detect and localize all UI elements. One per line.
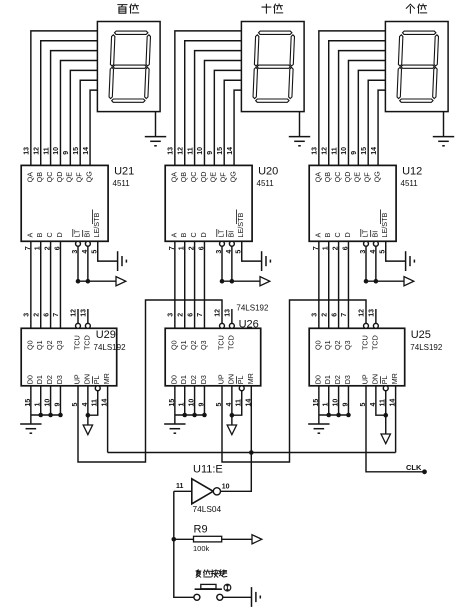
wire U20 QD to DS2 segment d [204,61,241,166]
svg-text:QD: QD [343,172,352,183]
ground below display DS1 [145,112,166,146]
svg-text:Q3: Q3 [55,340,64,350]
wire R9 left lead [174,538,194,540]
7-segment display DS1 (百位) [97,22,160,112]
wire U20 QA to DS2 segment a [175,31,242,166]
resistor R9 body [194,536,222,542]
label 十位 (digit name) [262,4,283,13]
svg-text:QA: QA [169,172,178,183]
wire U20 QC to DS2 segment c [195,51,242,166]
svg-text:TCD: TCD [226,335,235,350]
wire ground rail [175,414,205,416]
wire U12.B to U25.Q1 [328,241,330,328]
svg-text:QD: QD [55,172,64,183]
svg-text:QF: QF [219,172,228,183]
wire U25.MR to master reset line [395,386,397,453]
svg-text:U12: U12 [402,166,422,178]
ground below display DS2 [289,112,310,146]
stub wire U29.TCD (unconnected) [87,309,89,323]
wire U21.B to U29.Q1 [40,241,42,328]
junction ground rail at D3 [202,413,207,418]
wire U12 QG to DS3 segment g [378,90,385,165]
wire U29.DN to VCC [87,386,89,415]
label 百位 (digit name) [118,4,139,13]
ground below U26 data inputs [164,415,185,433]
push button (reset) [194,584,231,600]
svg-text:U11:E: U11:E [193,464,223,476]
wire U21.BI down to power rail [87,246,89,281]
svg-text:MR: MR [390,373,399,384]
svg-text:7: 7 [197,313,204,317]
svg-text:LT: LT [360,229,369,237]
junction at BI wire (231.9,281) [230,279,235,284]
wire U21.A to U29.Q0 [30,241,32,328]
inverted pin bubble U29.PL (11) [95,386,100,391]
counter U25 (74LS192) body [309,328,405,386]
svg-text:6: 6 [187,313,194,317]
svg-text:TCU: TCU [72,335,81,350]
wire U12.D to U25.Q3 [347,241,349,328]
svg-text:D: D [55,232,64,237]
junction MR line / inverter output (251,452) [249,450,254,455]
svg-text:6: 6 [331,313,338,317]
inverter U11:E (74LS04) [192,479,221,504]
svg-text:UP: UP [216,374,225,384]
wire U25.D2 to ground rail [338,386,340,415]
wire U25.D3 to ground rail [347,386,349,415]
svg-text:12: 12 [177,147,184,155]
power terminal VCC (arrow down) [385,415,387,434]
svg-text:Q0: Q0 [25,340,34,350]
wire inverter input (pin 11) [174,490,192,492]
svg-text:QE: QE [353,172,362,183]
svg-text:QB: QB [323,172,332,183]
svg-text:C: C [45,232,54,237]
svg-text:U25: U25 [411,329,431,341]
stub wire U29.TCU (unconnected) [77,309,79,323]
wire power rail horizontal [78,280,116,282]
svg-text:QD: QD [199,172,208,183]
wire U12.BI down to power rail [375,246,377,281]
junction at LT wire (78.0,281) [76,279,81,284]
svg-text:13: 13 [369,309,376,317]
wire U20.LE/STB to ground [242,241,262,261]
power terminal VCC (arrow down) [231,415,233,425]
svg-text:D0: D0 [25,375,34,384]
svg-text:10: 10 [341,147,348,155]
power terminal VCC (arrow right of R9) [252,535,262,544]
wire U20.BI down to power rail [231,246,233,281]
decoder U12 (4511) body [309,165,396,241]
svg-text:QG: QG [84,171,93,183]
svg-text:Q3: Q3 [199,340,208,350]
junction DN/PL (87.9,415) [86,413,91,418]
svg-text:PL: PL [92,376,101,385]
counter U26 (74LS192) body [165,328,261,386]
wire U12 QB to DS3 segment b [329,41,386,166]
svg-text:B: B [323,233,332,238]
svg-text:10: 10 [197,147,204,155]
svg-text:4511: 4511 [401,179,419,188]
wire master reset line (MR bus) [108,452,396,454]
svg-text:D1: D1 [323,375,332,384]
svg-text:Q2: Q2 [333,340,342,350]
svg-text:6: 6 [43,313,50,317]
wire U25.D0 to ground rail [318,386,320,415]
svg-text:3: 3 [24,313,31,317]
svg-text:12: 12 [215,309,222,317]
inverted pin bubble U29.TCD (13) [85,323,90,328]
wire U20.D to U26.Q3 [203,241,205,328]
svg-text:100k: 100k [193,544,210,553]
svg-text:4511: 4511 [113,179,131,188]
svg-text:U21: U21 [114,166,134,178]
svg-text:QA: QA [25,172,34,183]
svg-text:15: 15 [361,147,368,155]
svg-text:12: 12 [321,147,328,155]
7-segment display DS2 (十位) [241,22,304,112]
svg-text:TCD: TCD [370,335,379,350]
wire power rail horizontal [366,280,404,282]
wire U20 QG to DS2 segment g [234,90,241,165]
label 个位 (digit name) [406,4,427,13]
wire U21 QG to DS1 segment g [90,90,97,165]
svg-text:13: 13 [225,309,232,317]
stub wire U25.TCD (unconnected) [375,309,377,323]
wire U25.UP(5) to CLK terminal [366,386,425,472]
svg-text:14: 14 [227,147,234,155]
junction DN/PL (385.7,415) [383,413,388,418]
svg-text:QB: QB [179,172,188,183]
svg-text:QG: QG [228,171,237,183]
svg-text:7: 7 [341,313,348,317]
wire U26.D0 to ground rail [174,386,176,415]
wire U29.D3 to ground rail [59,386,61,415]
junction ground rail at D3 [58,413,63,418]
junction DN/PL (231.9,415) [230,413,235,418]
svg-text:14: 14 [83,147,90,155]
ground (LE/STB) [262,251,271,271]
svg-text:13: 13 [312,147,319,155]
svg-text:QF: QF [75,172,84,183]
svg-text:13: 13 [24,147,31,155]
svg-text:D1: D1 [179,375,188,384]
svg-text:QE: QE [65,172,74,183]
wire U20.C to U26.Q2 [194,241,196,328]
svg-text:D3: D3 [199,375,208,384]
svg-text:QF: QF [363,172,372,183]
svg-text:BI: BI [226,231,235,238]
wire U21 QC to DS1 segment c [51,51,98,166]
inverted pin bubble U26.PL (11) [239,386,244,391]
svg-text:D0: D0 [169,375,178,384]
wire reset net vertical (inverter input to button) [174,491,194,597]
junction ground rail at D1 [326,413,331,418]
inverted pin bubble U26.TCD (13) [229,323,234,328]
svg-text:LT: LT [216,229,225,237]
svg-text:11: 11 [187,147,194,155]
svg-text:15: 15 [217,147,224,155]
svg-text:D0: D0 [313,375,322,384]
svg-text:14: 14 [371,147,378,155]
junction ground rail at D1 [38,413,43,418]
wire U21 QB to DS1 segment b [41,41,98,166]
ground (LE/STB) [406,251,415,271]
svg-text:Q1: Q1 [179,340,188,350]
svg-text:QG: QG [372,171,381,183]
svg-text:LE/STB: LE/STB [236,213,245,238]
svg-text:13: 13 [81,309,88,317]
svg-text:TCU: TCU [216,335,225,350]
wire U26.MR / inverter output to master reset line [220,386,252,492]
inverted pin bubble U12.BI (4) [373,241,378,246]
junction at LT wire (366.0,281) [364,279,369,284]
svg-text:9: 9 [63,151,70,155]
counter U29 (74LS192) body [21,328,117,386]
inverted pin bubble U21.BI (4) [85,241,90,246]
ground (LE/STB) [118,251,127,271]
wire ground rail [319,414,349,416]
svg-text:D: D [199,232,208,237]
wire U12 QC to DS3 segment c [339,51,386,166]
svg-text:DN: DN [82,374,91,384]
svg-text:DN: DN [226,374,235,384]
svg-text:3: 3 [312,313,319,317]
svg-text:D: D [343,232,352,237]
svg-text:10: 10 [53,147,60,155]
power terminal VCC (arrow down) [87,415,89,425]
svg-text:11: 11 [43,147,50,155]
svg-text:QC: QC [45,172,54,183]
inverted pin bubble U25.PL (11) [383,386,388,391]
svg-text:Q0: Q0 [313,340,322,350]
wire U12.LT down to power rail [365,246,367,281]
junction ground rail at D2 [192,413,197,418]
svg-text:A: A [313,233,322,238]
svg-text:QE: QE [209,172,218,183]
svg-text:D3: D3 [55,375,64,384]
power terminal VCC (arrow right) [116,277,126,286]
svg-text:CLK: CLK [406,463,422,472]
wire U21.C to U29.Q2 [50,241,52,328]
wire R9 right lead to VCC [222,538,252,540]
ground below U29 data inputs [20,415,41,433]
wire carry: U25.TCU(12) to U26.UP(5) [222,300,366,462]
wire U21 QA to DS1 segment a [31,31,98,166]
svg-text:BI: BI [82,231,91,238]
svg-text:2: 2 [177,313,184,317]
svg-text:11: 11 [176,483,184,490]
svg-text:A: A [25,233,34,238]
wire U20.A to U26.Q0 [174,241,176,328]
svg-text:D2: D2 [189,375,198,384]
svg-text:4511: 4511 [257,179,275,188]
svg-text:C: C [189,232,198,237]
svg-text:10: 10 [222,483,230,490]
junction reset net at R9 (173.8,539.3) [172,537,177,542]
svg-text:QC: QC [189,172,198,183]
svg-text:12: 12 [71,309,78,317]
svg-text:A: A [169,233,178,238]
wire U20.B to U26.Q1 [184,241,186,328]
svg-text:74LS192: 74LS192 [410,343,443,352]
svg-text:TCU: TCU [360,335,369,350]
junction at BI wire (87.9,281) [86,279,91,284]
svg-text:U26: U26 [239,319,259,331]
svg-text:11: 11 [331,147,338,155]
wire U12 QF to DS3 segment f [368,80,385,165]
ground below U25 data inputs [308,415,329,433]
junction ground rail at D2 [336,413,341,418]
wire U25.PL to VCC [385,391,387,416]
svg-text:12: 12 [33,147,40,155]
svg-text:Q0: Q0 [169,340,178,350]
wire U21 QF to DS1 segment f [80,80,97,165]
svg-text:15: 15 [73,147,80,155]
junction at BI wire (375.9,281) [374,279,379,284]
svg-text:D2: D2 [333,375,342,384]
svg-text:D2: D2 [45,375,54,384]
decoder U20 (4511) body [165,165,252,241]
svg-text:12: 12 [359,309,366,317]
svg-text:U20: U20 [258,166,278,178]
svg-text:B: B [179,233,188,238]
svg-text:BI: BI [370,231,379,238]
wire ground rail [31,414,61,416]
junction ground rail at D1 [182,413,187,418]
svg-text:Q3: Q3 [343,340,352,350]
svg-text:74LS192: 74LS192 [236,304,269,313]
stub wire U26.TCD (unconnected) [231,309,233,323]
wire U29.PL to VCC [88,391,98,416]
power terminal VCC (arrow right) [404,277,414,286]
svg-text:9: 9 [207,151,214,155]
svg-text:MR: MR [102,373,111,384]
inverted pin bubble U20.BI (4) [229,241,234,246]
wire U12 QE to DS3 segment e [358,70,385,165]
svg-text:UP: UP [72,374,81,384]
svg-text:Q1: Q1 [35,340,44,350]
svg-text:QA: QA [313,172,322,183]
svg-text:74LS192: 74LS192 [94,343,127,352]
wire U25.DN to VCC [376,386,386,415]
inverted pin bubble U29.TCU (12) [76,323,81,328]
wire U20 QF to DS2 segment f [224,80,241,165]
svg-text:U29: U29 [96,329,116,341]
svg-text:B: B [35,233,44,238]
7-segment display DS3 (个位) [385,22,448,112]
inverted pin bubble U25.TCU (12) [364,323,369,328]
inverted pin bubble U20.LT (3) [220,241,225,246]
svg-text:UP: UP [360,374,369,384]
junction at LT wire (222.0,281) [220,279,225,284]
svg-text:2: 2 [33,313,40,317]
svg-text:QB: QB [35,172,44,183]
svg-text:Q1: Q1 [323,340,332,350]
inverted pin bubble U12.LT (3) [364,241,369,246]
svg-text:Q2: Q2 [45,340,54,350]
wire U21.LE/STB to ground [98,241,118,261]
wire U21 QE to DS1 segment e [70,70,97,165]
wire U26.D2 to ground rail [194,386,196,415]
wire U26.D1 to ground rail [184,386,186,415]
junction ground rail at D2 [48,413,53,418]
svg-text:PL: PL [380,376,389,385]
svg-text:74LS04: 74LS04 [193,504,222,514]
inverted pin bubble U26.TCU (12) [220,323,225,328]
wire carry: U26.TCU(12) to U29.UP(5) [78,300,222,462]
svg-text:LT: LT [72,229,81,237]
wire U12 QD to DS3 segment d [348,61,385,166]
wire U29.MR to master reset line [107,386,109,453]
svg-text:D1: D1 [35,375,44,384]
svg-text:PL: PL [236,376,245,385]
svg-text:Q2: Q2 [189,340,198,350]
wire U29.D2 to ground rail [50,386,52,415]
wire U21.D to U29.Q3 [59,241,61,328]
svg-text:7: 7 [53,313,60,317]
wire U12.C to U25.Q2 [338,241,340,328]
junction ground rail at D3 [346,413,351,418]
wire U12 QA to DS3 segment a [319,31,386,166]
wire U21.LT down to power rail [77,246,79,281]
svg-text:MR: MR [246,373,255,384]
svg-text:D3: D3 [343,375,352,384]
wire U29.D1 to ground rail [40,386,42,415]
svg-text:C: C [333,232,342,237]
terminal CLK [422,469,427,474]
ground below display DS3 [433,112,454,146]
inverted pin bubble U21.LT (3) [76,241,81,246]
wire power rail horizontal [222,280,260,282]
inverted pin bubble U25.TCD (13) [373,323,378,328]
wire U26.PL to VCC [232,391,242,416]
svg-text:LE/STB: LE/STB [92,213,101,238]
svg-text:3: 3 [168,313,175,317]
wire U29.D0 to ground rail [30,386,32,415]
svg-text:9: 9 [351,151,358,155]
svg-text:LE/STB: LE/STB [380,213,389,238]
svg-text:2: 2 [321,313,328,317]
svg-text:DN: DN [370,374,379,384]
wire U12.LE/STB to ground [386,241,406,261]
ground (reset button) [252,587,261,607]
wire U20.LT down to power rail [221,246,223,281]
wire U21 QD to DS1 segment d [60,61,97,166]
decoder U21 (4511) body [21,165,108,241]
wire U25.D1 to ground rail [328,386,330,415]
svg-text:TCD: TCD [82,335,91,350]
wire button right terminal to ground [223,596,251,598]
wire U20 QB to DS2 segment b [185,41,242,166]
label 复位按键 (reset button) [196,570,227,578]
power terminal VCC (arrow right) [260,277,270,286]
wire U12.A to U25.Q0 [318,241,320,328]
wire U20 QE to DS2 segment e [214,70,241,165]
svg-text:QC: QC [333,172,342,183]
wire U26.D3 to ground rail [203,386,205,415]
svg-text:R9: R9 [194,524,208,536]
wire U26.DN to VCC [231,386,233,415]
svg-text:13: 13 [168,147,175,155]
